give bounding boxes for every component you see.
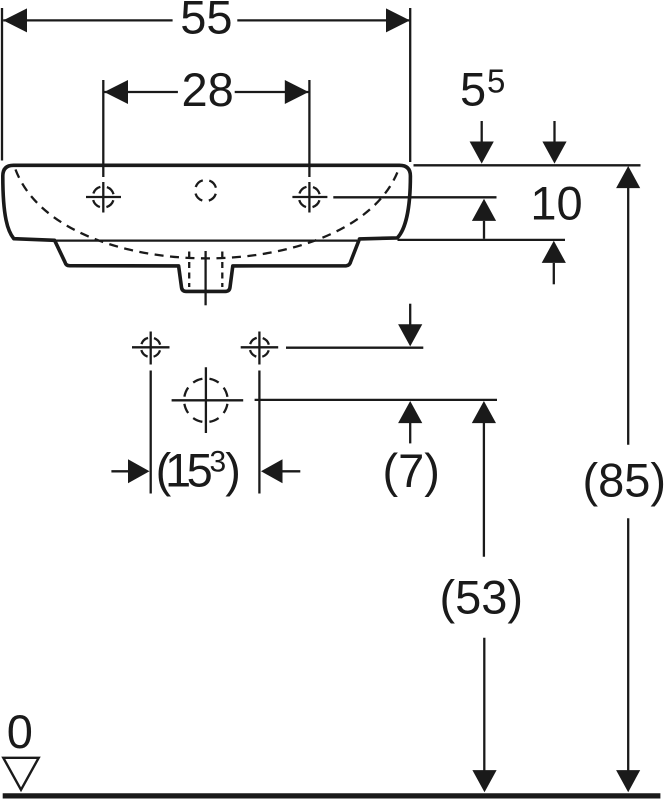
reference line at basin top edge level (right) — [414, 164, 641, 166]
svg-text:3: 3 — [210, 445, 227, 478]
dimension 10: upper arrowhead pointing down — [542, 142, 566, 164]
drain hidden dashed line left — [188, 252, 190, 288]
dimension 10: upper arrow stem — [553, 121, 555, 143]
dimension 10: lower arrow stem — [553, 263, 555, 284]
fixing hole right: cross horizontal — [241, 346, 279, 348]
dimension 28: dimension line right segment — [235, 91, 309, 93]
dimension 28: right arrowhead — [285, 80, 309, 104]
svg-text:(7): (7) — [382, 444, 439, 497]
dimension (7): lower arrow stem — [409, 423, 411, 443]
dimension 28: right extension line — [308, 80, 310, 177]
waste outlet: large dashed circle — [184, 379, 228, 423]
dimension 55: dimension line right segment — [237, 19, 409, 21]
dimension 55: left extension line — [1, 8, 3, 161]
reference line at fixing hole level (for 7) — [286, 347, 423, 349]
dimension (15.3): right arrow stem — [282, 470, 300, 472]
fixing hole left: dashed circle — [141, 338, 161, 358]
dimension 55: right extension line — [409, 8, 411, 162]
dimension 5.5: upper arrow stem — [481, 121, 483, 143]
dimension (85): lower arrowhead pointing down — [616, 770, 640, 792]
dimension 28: left extension line — [102, 80, 104, 177]
dimension 5.5: lower arrow stem — [483, 221, 485, 239]
svg-text:28: 28 — [181, 63, 233, 116]
dimension (85): upper stem — [627, 188, 629, 445]
fixing hole left: cross vertical — [150, 332, 152, 365]
dimension (7): upper arrow stem — [409, 304, 411, 326]
svg-text:(85): (85) — [583, 454, 664, 507]
dimension 28: left arrowhead — [104, 80, 128, 104]
tap hole right: cross horizontal — [292, 196, 327, 198]
waste outlet: cross vertical — [205, 367, 207, 433]
waste outlet: cross horizontal — [172, 399, 244, 401]
overflow hole center dashed circle — [195, 180, 216, 201]
dimension (7): upper arrowhead pointing down — [398, 324, 422, 346]
tap hole right: dashed circle — [299, 186, 320, 207]
svg-text:10: 10 — [530, 177, 582, 230]
reference line at tap hole level (right, for 5.5) — [333, 196, 496, 198]
datum triangle symbol — [3, 758, 38, 790]
tap hole left: cross vertical — [102, 182, 104, 213]
dimension 55: dimension line left segment — [3, 19, 172, 21]
dimension 28: dimension line left segment — [104, 91, 178, 93]
dimension (85): lower stem — [627, 518, 629, 773]
basin apron step thin line (front) — [56, 239, 357, 241]
dimension (53): upper arrowhead pointing up — [472, 401, 496, 423]
reference line at waste outlet level (for 7 and 53) — [255, 399, 497, 401]
floor line — [3, 793, 661, 798]
dimension 5.5: lower arrowhead pointing up — [472, 199, 496, 221]
drain centerline — [204, 251, 206, 305]
svg-text:5: 5 — [460, 63, 486, 116]
dimension (53): lower stem — [483, 638, 485, 773]
svg-text:5: 5 — [487, 62, 505, 99]
dimension (15.3): left arrow stem — [111, 470, 128, 472]
dimension (15.3): right arrowhead pointing left — [261, 459, 283, 483]
fixing hole right: cross vertical — [258, 332, 260, 365]
svg-text:0: 0 — [7, 705, 33, 758]
basin inner rim dashed curve — [16, 170, 399, 259]
fixing hole right: dashed circle — [250, 338, 270, 358]
reference line at basin bottom step level (right, for 10) — [398, 239, 566, 241]
dimension (15.3): left arrowhead pointing right — [128, 459, 150, 483]
fixing hole right: extension line down — [258, 371, 260, 494]
dimension 10: lower arrowhead pointing up — [542, 241, 566, 263]
fixing hole left: cross horizontal — [132, 346, 170, 348]
dimension (7): lower arrowhead pointing up — [398, 401, 422, 423]
basin outline — [3, 165, 411, 291]
tap hole left: cross horizontal — [86, 196, 121, 198]
svg-text:(53): (53) — [440, 571, 524, 624]
drain hidden dashed line right — [221, 252, 223, 288]
svg-text:55: 55 — [180, 0, 232, 44]
dimension 5.5: upper arrowhead pointing down — [470, 142, 494, 164]
svg-text:): ) — [225, 444, 241, 497]
dimension 55: right arrowhead — [386, 8, 410, 32]
dimension (53): lower arrowhead pointing down — [472, 770, 496, 792]
dimension (85): upper arrowhead pointing up — [616, 166, 640, 188]
fixing hole left: extension line down — [150, 371, 152, 494]
dimension 55: left arrowhead — [3, 8, 27, 32]
tap hole left: dashed circle — [93, 186, 114, 207]
tap hole right: cross vertical — [308, 182, 310, 213]
dimension (53): upper stem — [483, 423, 485, 557]
